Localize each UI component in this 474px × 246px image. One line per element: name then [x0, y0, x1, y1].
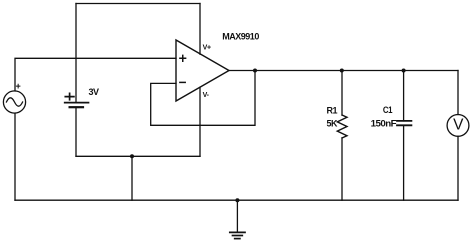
AC source V2 — [3, 84, 25, 113]
junction output-R1 node — [340, 69, 344, 73]
junction ground node — [235, 198, 239, 202]
svg-text:R1: R1 — [327, 105, 338, 115]
wire voltmeter bottom lead — [457, 136, 459, 200]
junction output-C1 node — [402, 69, 406, 73]
wire AC source bottom lead — [14, 113, 16, 200]
svg-text:5K: 5K — [327, 118, 338, 128]
wire op-amp output rail — [229, 70, 458, 72]
battery V1 3V — [65, 93, 89, 107]
svg-text:3V: 3V — [89, 87, 100, 97]
wire R1 bottom lead — [341, 138, 343, 200]
svg-text:MAX9910: MAX9910 — [222, 32, 259, 42]
wire AC source to non-inverting input — [15, 58, 176, 91]
resistor R1 — [337, 115, 347, 138]
svg-text:150nF: 150nF — [371, 118, 397, 128]
ground — [230, 232, 245, 238]
svg-text:V: V — [453, 117, 464, 134]
wire ground stub — [236, 200, 238, 231]
junction output-feedback node — [253, 69, 257, 73]
wire mid vertical to ground rail — [131, 156, 133, 200]
op-amp U1 MAX9910 — [176, 40, 229, 101]
wire top rail from battery top to op-amp V+ — [76, 3, 200, 5]
wire battery bottom lead — [75, 107, 77, 156]
voltmeter M1 — [447, 115, 469, 137]
wire battery top lead — [75, 4, 77, 102]
wire C1 bottom lead — [403, 125, 405, 200]
wire V+ supply lead — [199, 4, 201, 55]
wire bottom ground rail — [15, 199, 458, 201]
wire lower horizontal battery to V- — [76, 155, 200, 157]
wire voltmeter top lead — [457, 71, 459, 115]
svg-text:C1: C1 — [383, 105, 393, 115]
wire V- lead — [199, 87, 201, 156]
wire C1 top lead — [403, 71, 405, 121]
wire R1 top lead — [341, 71, 343, 116]
svg-text:V+: V+ — [203, 44, 211, 51]
svg-text:V-: V- — [203, 92, 210, 99]
wire inverting input feedback loop — [151, 71, 255, 126]
capacitor C1 — [397, 121, 411, 125]
junction lower rail node — [130, 154, 134, 158]
